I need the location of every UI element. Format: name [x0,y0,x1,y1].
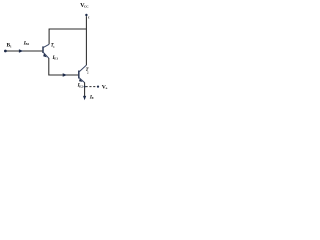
arrowhead IE down [83,96,86,100]
label T1 [51,43,56,49]
transistor T2 [79,65,87,83]
label IE2 [77,83,84,89]
arrowhead IB2 [63,73,67,76]
transistor T1 [43,44,49,58]
node Vo terminal [97,86,99,88]
svg-text:E: E [92,96,94,100]
label Vo [102,85,108,91]
svg-text:c: c [88,15,90,19]
label IE1 [52,55,59,61]
wire Vcc vertical [85,16,87,65]
svg-text:1: 1 [53,45,55,49]
label T2 [86,68,90,74]
label Vcc [80,2,89,9]
wire collector T1 to top rail [49,29,86,44]
label IE bottom [89,94,94,100]
svg-text:1: 1 [10,44,12,48]
node junction emitter/output [84,86,86,88]
label IB1 [23,40,30,46]
svg-text:o: o [106,86,108,90]
svg-text:E1: E1 [54,57,58,61]
wire emitter T1 to base T2 [49,58,79,75]
wire emitter T2 down [84,82,86,97]
svg-text:2: 2 [87,70,89,74]
node Vcc terminal [85,14,87,16]
wire dashed to Vo [86,86,97,88]
svg-text:E2: E2 [79,84,83,88]
svg-text:CC: CC [84,5,89,9]
node B1 [4,50,7,53]
svg-text:B1: B1 [26,42,30,46]
wire base of T1 from B1 [5,50,42,52]
arrowhead IB1 [19,49,24,52]
label B1 [7,43,13,49]
